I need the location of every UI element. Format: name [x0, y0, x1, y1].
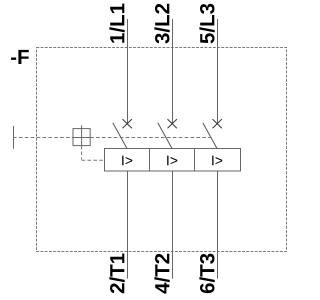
- wire T2 bottom: [172, 171, 174, 279]
- contact x pole 3: [213, 119, 222, 128]
- contact x pole 1: [123, 119, 132, 128]
- wire T3 bottom: [217, 171, 219, 279]
- actuator square: [73, 129, 90, 146]
- label -F: [11, 50, 29, 64]
- overload release box row: [105, 149, 241, 172]
- terminal label 3/L2: [154, 4, 169, 44]
- wire L1 top: [127, 19, 129, 124]
- terminal label 4/T2: [154, 254, 169, 294]
- trip linkage dashed horizontal: [82, 159, 105, 161]
- release symbol I> pole 3: [212, 156, 222, 166]
- device outline -F (dashed enclosure): [37, 48, 287, 252]
- actuator cross horizontal: [73, 137, 90, 139]
- terminal label 5/L3: [199, 4, 214, 44]
- contact x pole 2: [168, 119, 177, 128]
- actuator cross vertical: [81, 125, 83, 145]
- box divider 1: [149, 149, 151, 172]
- terminal label 6/T3: [199, 254, 214, 294]
- release symbol I> pole 2: [167, 156, 177, 166]
- left terminal tick: [13, 126, 15, 149]
- wire T1 bottom: [127, 171, 129, 279]
- terminal label 2/T1: [109, 254, 124, 294]
- terminal label 1/L1: [109, 4, 124, 43]
- wire L2 top: [172, 19, 174, 124]
- wire L3 top: [217, 19, 219, 124]
- mechanical linkage dashed (actuator to pole 3 blade): [90, 137, 211, 139]
- moving contact blade pole 1: [113, 123, 128, 149]
- release symbol I> pole 1: [122, 156, 132, 166]
- moving contact blade pole 3: [203, 123, 218, 149]
- trip linkage dashed vertical: [81, 146, 83, 160]
- box divider 2: [194, 149, 196, 172]
- mechanical linkage dashed (tick to actuator): [13, 137, 73, 139]
- moving contact blade pole 2: [158, 123, 173, 149]
